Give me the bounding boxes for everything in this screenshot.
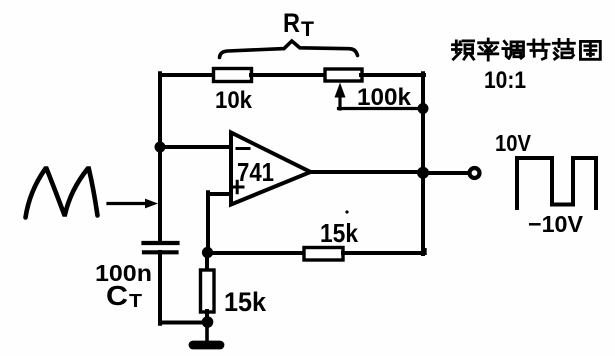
svg-text:741: 741: [237, 157, 274, 187]
wire resistor to ground node: [205, 311, 209, 322]
speck noise dot: [345, 210, 348, 213]
svg-text:15k: 15k: [320, 218, 358, 248]
resistor R3 15k vertical: [201, 270, 215, 312]
svg-text:T: T: [129, 291, 142, 311]
input arrow: [108, 199, 158, 209]
wire output stub: [423, 171, 468, 175]
svg-text:−10V: −10V: [528, 211, 584, 237]
wire bottom horizontal: [160, 321, 207, 325]
wire non-inverting input: [208, 192, 231, 252]
wire op-amp output: [310, 170, 423, 174]
op-amp U1 741: [231, 133, 311, 205]
char pin: [452, 41, 473, 59]
label CT: [106, 280, 142, 311]
wire inverting input: [160, 145, 232, 149]
svg-text:T: T: [301, 18, 314, 41]
svg-text:C: C: [106, 280, 128, 311]
svg-text:10k: 10k: [215, 87, 253, 114]
resistor R2 15k horizontal: [304, 248, 343, 261]
char jie: [528, 40, 549, 59]
ground: [193, 322, 220, 345]
resistor RT1 10k: [214, 69, 252, 82]
wire to vertical resistor: [205, 252, 209, 271]
potentiometer wiper arrow: [335, 84, 423, 109]
svg-text:10V: 10V: [495, 130, 532, 156]
char diao: [503, 41, 524, 58]
output terminal circle: [470, 168, 480, 178]
char fan: [553, 39, 574, 59]
wire left rail upper: [158, 73, 162, 243]
svg-text:15k: 15k: [224, 287, 267, 317]
char lv: [479, 39, 498, 60]
label RT: [283, 8, 314, 41]
svg-text:R: R: [283, 8, 300, 38]
node feedback junction: [202, 247, 213, 258]
capacitor CT plates: [144, 243, 178, 252]
node wiper junction: [418, 103, 429, 114]
wire feedback right segment: [343, 250, 425, 253]
node ground junction: [202, 316, 214, 328]
wire pot to right rail: [361, 73, 424, 77]
triangle waveform symbol: [26, 169, 98, 218]
wire left rail lower: [158, 252, 162, 324]
char wei: [580, 41, 600, 59]
chinese caption frequency adjustment range: [452, 39, 600, 60]
brace over RT: [220, 41, 358, 58]
wire feedback left segment: [207, 251, 305, 255]
node inverting input junction: [155, 142, 166, 153]
node output junction: [417, 167, 429, 179]
wire between 10k and pot: [251, 73, 326, 77]
svg-text:10:1: 10:1: [484, 67, 526, 94]
square wave symbol: [517, 158, 596, 208]
wire top-left horizontal: [160, 73, 215, 77]
potentiometer RT2 100k body: [325, 69, 362, 81]
wire right rail: [421, 73, 425, 254]
